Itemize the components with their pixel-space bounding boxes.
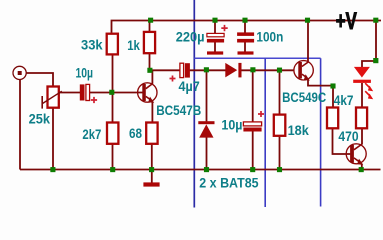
svg-text:68: 68 (129, 125, 142, 141)
svg-text:BC547B: BC547B (156, 102, 201, 118)
svg-text:470: 470 (338, 128, 358, 144)
svg-text:100n: 100n (256, 28, 283, 44)
svg-text:10µ: 10µ (221, 117, 242, 133)
svg-text:18k: 18k (288, 122, 309, 138)
svg-text:220µ: 220µ (176, 29, 205, 45)
svg-text:25k: 25k (29, 110, 51, 126)
svg-text:4k7: 4k7 (334, 92, 354, 108)
svg-text:BC549C: BC549C (282, 89, 326, 105)
svg-text:1k: 1k (127, 37, 140, 53)
svg-text:2k7: 2k7 (82, 126, 101, 142)
svg-text:10µ: 10µ (76, 65, 94, 81)
svg-text:2 x BAT85: 2 x BAT85 (199, 175, 258, 191)
svg-text:4µ7: 4µ7 (179, 78, 200, 94)
svg-text:+V: +V (336, 8, 357, 35)
svg-text:33k: 33k (81, 37, 103, 53)
